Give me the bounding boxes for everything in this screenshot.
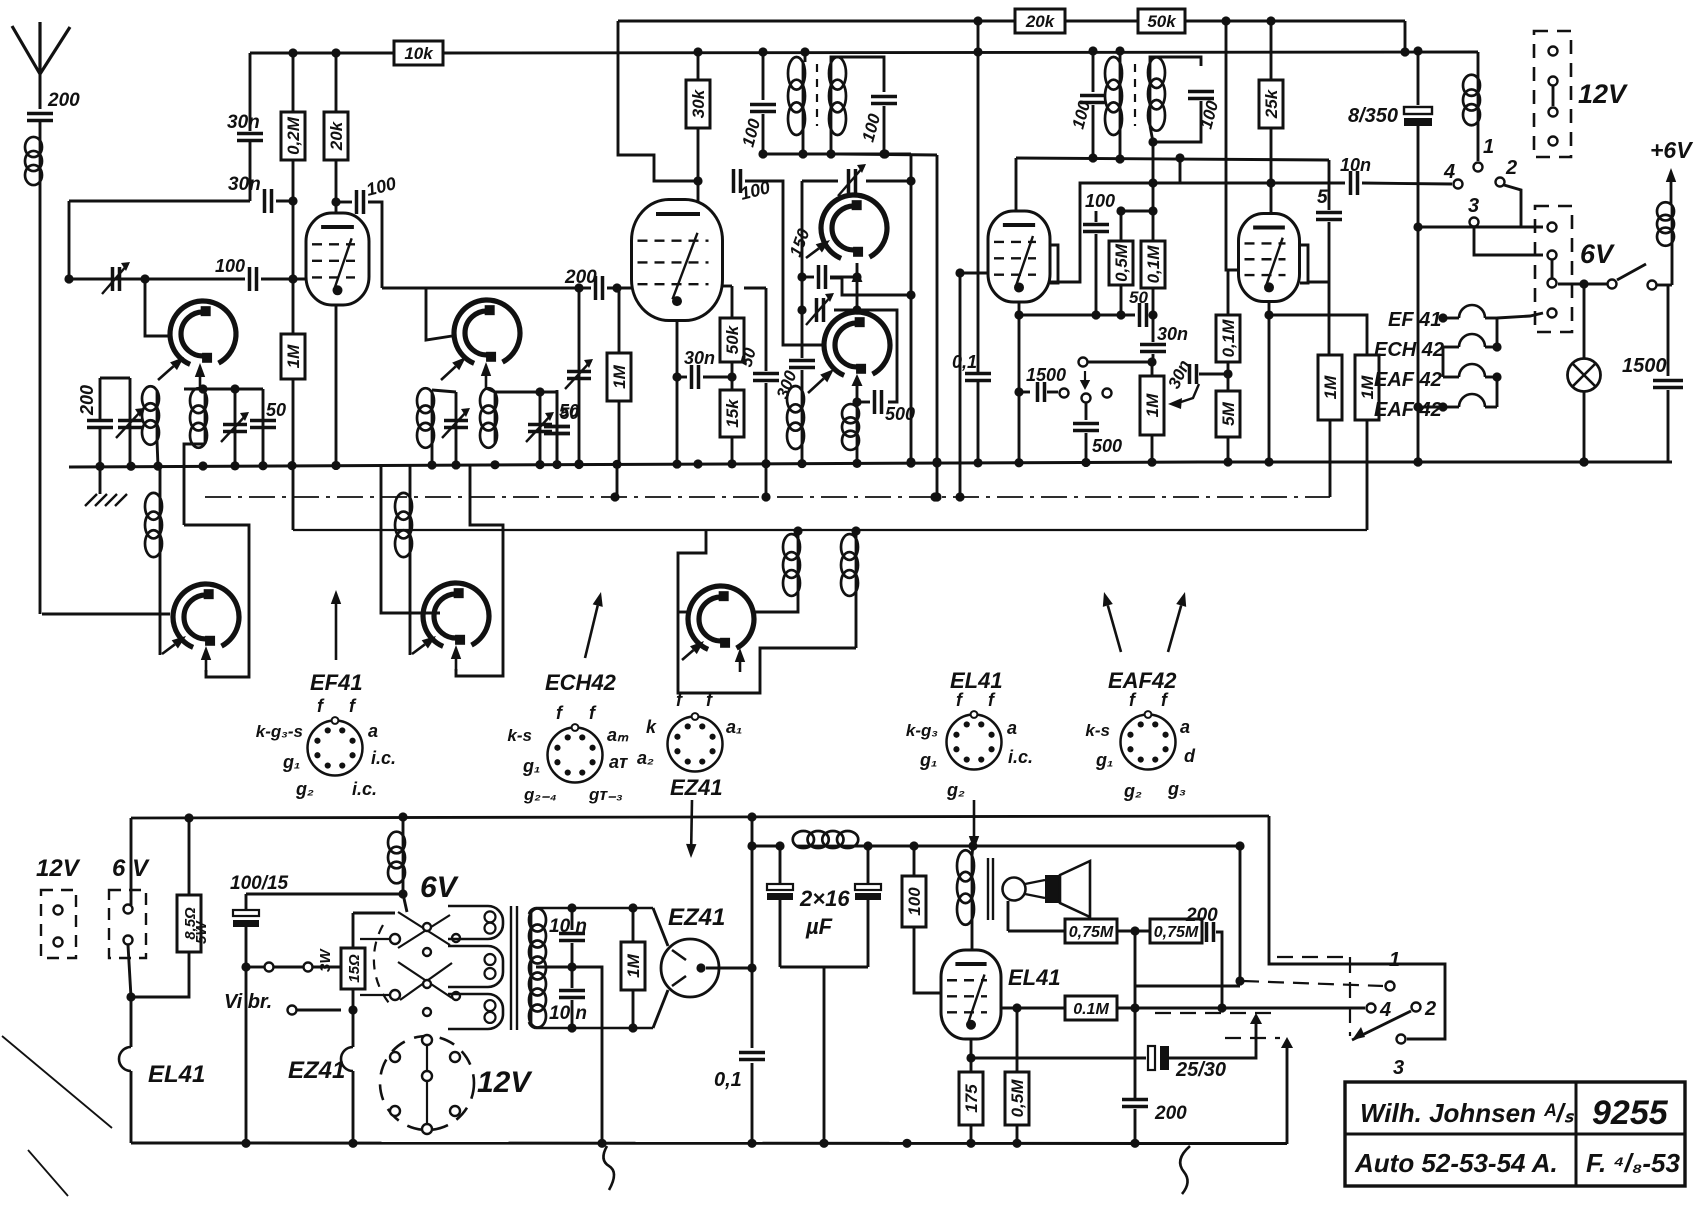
osc C-D coupling network	[840, 154, 937, 155]
wire	[1134, 1109, 1137, 1143]
svg-text:100: 100	[215, 256, 245, 276]
0,1M vertical from top bus	[1226, 21, 1243, 270]
svg-text:aᴛ: aᴛ	[609, 752, 628, 772]
core	[992, 858, 994, 920]
node osc G coil B	[851, 526, 860, 535]
bus junction x=677	[672, 459, 681, 468]
oscillator coil circle B	[454, 300, 520, 363]
wire	[297, 1009, 341, 1012]
svg-text:0,1: 0,1	[952, 352, 977, 372]
node 8/350 top	[1413, 46, 1422, 55]
bus junction x=336	[331, 461, 340, 470]
resistor 1M grid a	[1318, 355, 1342, 420]
wire	[274, 966, 303, 969]
trimmer osc D	[817, 298, 824, 322]
capacitor 100 coupling	[357, 190, 364, 214]
trimmer osc C	[849, 169, 856, 193]
heater lead lower	[653, 990, 668, 1028]
wire	[677, 376, 687, 379]
wire	[1151, 362, 1154, 376]
capacitor 50 tank A	[250, 421, 276, 428]
svg-text:100: 100	[1085, 191, 1115, 211]
node volume pot top	[1147, 357, 1156, 366]
svg-text:8/350: 8/350	[1348, 105, 1398, 127]
output transformer primary	[971, 855, 974, 920]
IF transformer 2	[1092, 51, 1095, 92]
node 0.5M link	[1148, 206, 1157, 215]
main ground bus	[69, 462, 1672, 467]
svg-text:2: 2	[1424, 998, 1436, 1020]
wire 200 cap down	[1216, 932, 1222, 1008]
wire 25k top	[1270, 21, 1273, 80]
svg-text:15k: 15k	[723, 398, 742, 428]
bus junction x=911	[906, 459, 915, 468]
node bus	[932, 457, 941, 466]
capacitor 300	[789, 361, 815, 368]
oscillator coil circle F	[423, 583, 489, 646]
arrow core F2	[455, 659, 458, 671]
diode bracket EAF42-2	[1300, 245, 1308, 283]
node	[797, 272, 806, 281]
svg-text:a₂: a₂	[637, 748, 654, 768]
coil vibrator feed	[402, 835, 405, 880]
node	[1130, 926, 1139, 935]
svg-text:Auto 52-53-54 A.: Auto 52-53-54 A.	[1354, 1148, 1558, 1178]
bus junction x=540	[535, 460, 544, 469]
line y154	[763, 153, 911, 156]
node filter line	[747, 841, 756, 850]
arrow core G1	[682, 650, 693, 660]
svg-text:g₂: g₂	[1123, 781, 1142, 801]
node IF1 primary top	[800, 47, 809, 56]
bus-2 junction x=1135	[1130, 1139, 1139, 1148]
bus junction x=1418	[1413, 457, 1422, 466]
wire	[556, 392, 559, 466]
coil osc D left	[801, 390, 804, 445]
wire y846 right	[855, 845, 1240, 848]
contact 1	[1474, 163, 1483, 172]
svg-text:0,1M: 0,1M	[1144, 245, 1163, 284]
bus junction x=495	[490, 460, 499, 469]
resistor 100	[902, 876, 926, 927]
contact 2 bottom	[1412, 1003, 1421, 1012]
svg-text:4: 4	[1379, 999, 1391, 1021]
wire	[431, 444, 434, 466]
wire	[1153, 101, 1201, 142]
resistor 0,5M	[1005, 1072, 1029, 1125]
wire y986	[1135, 985, 1240, 988]
wire	[234, 389, 237, 466]
coil G B	[855, 538, 858, 592]
node	[348, 1005, 357, 1014]
transformer primary windings	[448, 906, 503, 939]
wire ECH42 cathode to bus	[676, 320, 679, 464]
wire	[857, 401, 870, 404]
svg-text:1: 1	[1389, 949, 1400, 971]
wire	[632, 908, 635, 942]
wire x911 long vertical	[910, 154, 913, 462]
line y158	[1016, 158, 1329, 160]
resistor 20k	[1015, 9, 1065, 33]
capacitor 50	[1140, 303, 1147, 327]
IF2 primary coil	[1119, 62, 1122, 130]
trimmer antenna	[113, 267, 120, 291]
choke to contact 1	[1477, 52, 1480, 78]
node	[628, 1023, 637, 1032]
bus junction x=456	[451, 460, 460, 469]
wire 15k bottom	[731, 437, 734, 464]
coil G A	[797, 538, 800, 592]
wire	[834, 309, 857, 312]
wire	[1016, 1008, 1019, 1072]
6V pin3	[1548, 279, 1557, 288]
arrows to EAF42 sockets	[1108, 605, 1121, 652]
wire 25k bottom to EAF42-2	[1270, 128, 1273, 216]
wire	[157, 441, 158, 466]
12V pin	[1549, 108, 1558, 117]
wire osc G hook	[678, 531, 856, 693]
svg-text:EF 41: EF 41	[1388, 309, 1441, 331]
node osc G coil A	[793, 526, 802, 535]
svg-text:3: 3	[1468, 195, 1479, 217]
wire 1M top lead	[292, 279, 295, 334]
capacitor 10n upper	[559, 934, 585, 941]
node trimmer / osc tap	[140, 274, 149, 283]
wire coilA to osc G	[755, 592, 798, 612]
svg-text:30n: 30n	[227, 112, 260, 133]
svg-text:g₂₋₄: g₂₋₄	[523, 785, 557, 804]
arrow core C1	[806, 248, 819, 258]
wire to bus	[823, 967, 826, 1143]
tube EL41 output	[941, 950, 1001, 1039]
node top bus joins y52	[1400, 47, 1409, 56]
wire	[618, 401, 621, 464]
svg-text:k: k	[646, 717, 657, 737]
0,1uF line x978	[977, 21, 980, 372]
bus-2 junction x=824	[819, 1139, 828, 1148]
svg-text:5W: 5W	[193, 920, 210, 944]
bus junction x=617	[612, 460, 621, 469]
socket EAF42	[1121, 715, 1176, 770]
capacitor 30n wiper	[1190, 364, 1197, 384]
vibrator buffer coil	[402, 817, 405, 835]
wire to dashed bus	[1169, 1022, 1256, 1058]
antenna	[12, 26, 40, 74]
wire	[1671, 243, 1674, 285]
coil below bus left	[159, 497, 162, 553]
socket EF41	[308, 721, 363, 776]
svg-text:50k: 50k	[1147, 12, 1177, 31]
svg-text:500: 500	[885, 404, 915, 424]
wire	[130, 1071, 133, 1143]
svg-text:µF: µF	[805, 914, 833, 939]
node	[1235, 976, 1244, 985]
svg-text:0,1: 0,1	[714, 1069, 742, 1091]
choke coil	[1477, 78, 1480, 122]
tube EAF42 first	[988, 211, 1050, 302]
switch blade	[1617, 264, 1646, 280]
resistor 0,1M	[1141, 241, 1165, 288]
bus junction x=432	[427, 460, 436, 469]
arrow to EZ41 tube below	[690, 800, 693, 844]
svg-text:175: 175	[962, 1084, 981, 1113]
contact 3	[1470, 218, 1479, 227]
svg-text:ECH42: ECH42	[545, 670, 617, 695]
wire A2 bottom to lower loop	[184, 444, 205, 525]
wire	[883, 106, 886, 154]
svg-text:30n: 30n	[228, 174, 261, 195]
svg-text:12V: 12V	[477, 1066, 533, 1099]
socket EZ41	[668, 717, 723, 772]
bus-2 junction x=907	[902, 1139, 911, 1148]
wire rectifier output	[706, 967, 752, 970]
corner scratch marks bottom-left	[2, 1036, 112, 1128]
capacitor 200 top	[1207, 922, 1214, 942]
wire	[1088, 361, 1152, 364]
arrow core D1	[808, 378, 824, 393]
bus junction x=766	[761, 459, 770, 468]
bus junction x=978	[973, 458, 982, 467]
bottom ground bus	[131, 1142, 1287, 1146]
wire	[352, 1071, 355, 1143]
wire grid into tube	[261, 278, 306, 281]
30n to 1M arrow (wiper)	[1168, 398, 1182, 409]
svg-text:i.c.: i.c.	[352, 779, 377, 799]
wire EAF42-1 anode to IF2	[1015, 158, 1018, 211]
svg-text:10n: 10n	[1340, 155, 1371, 175]
wire	[1120, 211, 1123, 241]
capacitor 200 grid ECH42	[596, 276, 603, 300]
svg-text:g₃: g₃	[1167, 779, 1186, 799]
wire	[970, 1125, 973, 1143]
svg-text:6V: 6V	[1580, 239, 1615, 269]
bus junction x=1086	[1081, 458, 1090, 467]
bus-2 junction x=971	[966, 1139, 975, 1148]
wire	[1442, 347, 1445, 377]
transformer core	[510, 906, 512, 1030]
bus-2 junction x=602	[597, 1139, 606, 1148]
wire	[159, 466, 162, 497]
wire	[867, 900, 870, 967]
wire y288 left part	[382, 287, 560, 290]
wire x579 + trimmer	[578, 288, 581, 464]
capacitor 50 screen	[753, 374, 779, 381]
wire osc E hook	[184, 525, 249, 677]
bus y52	[250, 52, 394, 55]
phono switch contacts	[1084, 371, 1086, 380]
svg-text:0,5M: 0,5M	[1112, 243, 1131, 282]
wire	[780, 966, 868, 969]
wire top bus right	[1185, 20, 1405, 23]
IF1 core	[816, 64, 818, 126]
wire 50 cap leg	[556, 390, 559, 464]
core	[987, 858, 989, 920]
IF2 secondary coil	[1149, 62, 1152, 126]
100 cap at EF41 anode-ish (y202)	[336, 201, 352, 204]
wire y817 to 6V pin	[130, 818, 133, 905]
capacitor 0,1	[965, 374, 991, 381]
12V pin	[1549, 137, 1558, 146]
wire	[607, 287, 632, 290]
node	[567, 1023, 576, 1032]
capacitor 50	[544, 427, 570, 434]
wire IF1 secondary top	[831, 57, 884, 92]
+6V coil	[1671, 205, 1674, 243]
svg-text:F. ⁴/₈-53: F. ⁴/₈-53	[1586, 1148, 1680, 1178]
wire x618 vertical	[618, 21, 698, 181]
resistor 1M volume	[1140, 376, 1164, 435]
resistor 0,2M	[281, 112, 305, 160]
12V pin	[1549, 77, 1558, 86]
vibrator reed	[398, 962, 452, 998]
wire to osc A tap	[145, 279, 169, 336]
node	[1217, 1003, 1226, 1012]
svg-text:200: 200	[47, 90, 80, 111]
wire cathode	[970, 1039, 973, 1072]
wire y52 bus right part	[443, 52, 1478, 53]
heater lead upper	[653, 908, 668, 946]
node B+	[747, 963, 756, 972]
arrow core B2	[485, 376, 488, 388]
wire primary to EL41 anode	[971, 920, 974, 950]
wire	[751, 1063, 754, 1143]
wire antenna to osc E tap	[42, 613, 170, 616]
wire tap G	[678, 611, 689, 614]
wire platform B	[495, 391, 557, 394]
capacitor 1500	[1653, 381, 1683, 388]
node 1500 tap	[1014, 387, 1023, 396]
wire	[276, 200, 293, 203]
resistor 10k	[394, 41, 443, 65]
resistor 0,1M g2	[1216, 315, 1240, 362]
svg-text:0,75M: 0,75M	[1154, 924, 1199, 941]
node	[852, 397, 861, 406]
node 1M top	[612, 283, 621, 292]
wire	[801, 370, 804, 390]
wire	[571, 943, 574, 967]
node heater chain	[1413, 402, 1422, 411]
svg-text:gᴛ₋₃: gᴛ₋₃	[588, 785, 623, 804]
6V pin4	[1548, 309, 1557, 318]
wire	[801, 445, 804, 462]
bus junction x=579	[574, 460, 583, 469]
svg-text:50: 50	[266, 400, 286, 420]
wire EAF42-2 cathode to bus	[1268, 302, 1271, 462]
wire antenna down-lead	[39, 182, 42, 614]
wire	[618, 288, 621, 353]
coil A1	[156, 390, 159, 441]
svg-text:k-g₃-s: k-g₃-s	[256, 722, 303, 741]
0,1M resistor to output jack	[1001, 1007, 1065, 1010]
wire	[39, 121, 42, 140]
svg-text:a: a	[368, 721, 378, 741]
node 0.2M bottom / grid	[288, 274, 297, 283]
arrow core adjust A1	[158, 366, 174, 380]
svg-text:20k: 20k	[327, 120, 346, 151]
wire	[455, 392, 458, 466]
svg-text:2×16: 2×16	[799, 886, 850, 911]
wire	[313, 966, 341, 969]
bus-2 junction x=246	[241, 1139, 250, 1148]
IF transformer 1 100pF left	[762, 52, 765, 100]
bus junction x=1584	[1579, 457, 1588, 466]
svg-text:4: 4	[1443, 161, 1455, 183]
svg-text:EF41: EF41	[310, 670, 363, 695]
bus junction x=557	[552, 460, 561, 469]
node	[955, 268, 964, 277]
wire	[360, 938, 390, 940]
contact 2	[1496, 178, 1505, 187]
resistor 0,75M a	[1065, 919, 1117, 943]
wire 100/15 down to bus	[245, 927, 248, 1143]
IF2 core	[1134, 64, 1136, 126]
resistor 5M	[1216, 391, 1240, 437]
node	[880, 149, 889, 158]
transformer secondary box	[536, 908, 653, 1028]
node 10n tap	[1148, 178, 1157, 187]
svg-text:3W: 3W	[317, 948, 334, 972]
bus junction x=263	[258, 461, 267, 470]
resistor 1M ECH42 grid	[607, 353, 631, 401]
svg-text:12V: 12V	[36, 855, 81, 882]
capacitor 5	[1316, 213, 1342, 220]
svg-text:g₂: g₂	[295, 779, 314, 799]
tube EAF42 second	[1239, 214, 1300, 302]
arrow core adjust A2	[199, 377, 202, 390]
node IF2 sec bottom	[1148, 137, 1157, 146]
wire 0.2M bottom lead	[292, 160, 295, 279]
svg-text:100/15: 100/15	[230, 873, 289, 894]
resistor 1M buffer	[621, 942, 645, 990]
node AVC	[932, 492, 941, 501]
wire	[409, 553, 412, 655]
node bus	[1413, 457, 1422, 466]
12V connector dashed box	[1534, 31, 1571, 157]
wire	[779, 900, 782, 967]
wire lamp to bus	[1583, 391, 1586, 462]
node	[906, 290, 915, 299]
svg-text:EAF 42: EAF 42	[1374, 399, 1442, 421]
wire	[1227, 437, 1230, 462]
wire osc C to osc D	[856, 263, 859, 312]
wire to contact 4 bottom	[1117, 1007, 1365, 1010]
IF1 primary coil	[802, 62, 805, 130]
wire 30k top lead	[697, 52, 700, 80]
wire to contact 4	[1362, 183, 1452, 184]
wire down to 0.1M	[1152, 142, 1155, 241]
wire	[1496, 318, 1499, 347]
wire 20k bottom lead to tube cap	[335, 160, 338, 226]
wire down to AVC	[765, 383, 768, 497]
wire	[1151, 314, 1153, 317]
resistor 8,5 ohm	[177, 895, 201, 952]
10n output line y183	[1153, 182, 1345, 185]
node IF2 cap top	[1088, 46, 1097, 55]
node 25/30 tap	[966, 1053, 975, 1062]
svg-text:9255: 9255	[1592, 1094, 1669, 1132]
svg-text:ECH 42: ECH 42	[1374, 339, 1444, 361]
svg-text:EL41: EL41	[148, 1061, 205, 1088]
wire	[1095, 234, 1098, 315]
wire from ECH42 anode2	[723, 285, 732, 288]
AVC dash-dot line y497	[205, 496, 1330, 498]
bus junction x=1152	[1147, 458, 1156, 467]
25/30 electrolytic	[971, 1057, 1146, 1060]
svg-text:1M: 1M	[1143, 393, 1162, 417]
svg-text:1M: 1M	[284, 344, 303, 368]
wire	[486, 388, 495, 392]
tube EF41 (RF amp)	[306, 213, 369, 305]
